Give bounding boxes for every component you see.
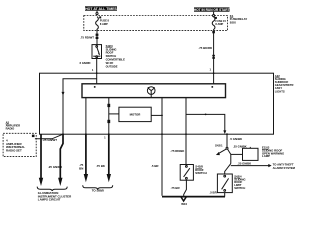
pin square right inside sub-box	[212, 86, 214, 88]
wire drop x186 to switch S42/8	[185, 134, 187, 164]
wire motor box to x162 drop	[151, 114, 162, 116]
svg-text:.75 BR: .75 BR	[171, 186, 181, 190]
svg-text:.75 RD/WT: .75 RD/WT	[80, 36, 94, 40]
svg-text:8 AMP: 8 AMP	[100, 22, 108, 26]
text illumination destination	[38, 191, 72, 201]
lamp box top tick	[249, 147, 251, 148]
wire stub from HOT IN RUN OR START	[213, 12, 215, 15]
svg-text:W/ RF: W/ RF	[106, 61, 114, 65]
A22 sliding roof motor assembly outline	[40, 73, 274, 134]
ground notch W10	[181, 196, 187, 201]
svg-text:ALARM SYSTEM: ALARM SYSTEM	[273, 166, 296, 170]
radio A2 dashed box	[3, 133, 36, 156]
svg-text:SWITCH: SWITCH	[195, 171, 206, 175]
svg-text:LIGHTS: LIGHTS	[275, 89, 285, 93]
wire drop x162 to ground bus	[161, 134, 163, 196]
svg-text:ROOF: ROOF	[106, 51, 114, 55]
svg-text:HOT IN RUN OR START: HOT IN RUN OR START	[194, 8, 231, 12]
svg-text:.5 BR: .5 BR	[209, 191, 216, 195]
wire sub-box drop at x186	[185, 98, 187, 135]
fuse/relay box K1 (dashed)	[84, 16, 228, 31]
switch S42/1 blade with arrow	[219, 149, 227, 153]
svg-text:W10: W10	[181, 202, 187, 206]
switch S42/4	[217, 174, 232, 193]
label A2 radio above dashed box	[6, 120, 21, 130]
wire W2 tap to illumination (corner, down inside assembly)	[63, 79, 97, 134]
switch S42/1 terminal	[226, 147, 228, 149]
power label HOT IN RUN OR START	[194, 7, 231, 12]
warning lamp E15/3 box	[243, 148, 259, 160]
ground bus G	[162, 196, 225, 198]
label S42/3 switch text	[106, 44, 125, 68]
wire S42/4 to ground bus	[224, 193, 226, 197]
switch S42/3 sliding roof switch	[92, 45, 102, 59]
svg-text:.25 GN/RD: .25 GN/RD	[48, 165, 62, 169]
junction dot at motor output	[161, 115, 163, 117]
wire sub-box drop at x109 with connectors	[108, 98, 110, 135]
junction dot on branch	[205, 114, 207, 116]
junction dot switch wire on A22 top edge	[96, 72, 98, 74]
brace under x86/x109 arrows	[83, 185, 113, 189]
svg-text:.75 BK: .75 BK	[96, 164, 106, 168]
motor symbol circle with star	[147, 87, 155, 97]
wire drop x86 to arrow	[85, 134, 87, 175]
wire drop to illumination arrow right	[60, 134, 63, 179]
svg-text:TO S88/5: TO S88/5	[92, 188, 105, 192]
junction dots on A22 bottom edge	[62, 133, 64, 135]
svg-text:HOT AT ALL TIMES: HOT AT ALL TIMES	[85, 7, 117, 11]
wire drop to illumination arrow left	[40, 134, 42, 179]
motor box	[119, 107, 151, 121]
radio terminal square	[32, 135, 35, 138]
svg-text:OUTSIDE: OUTSIDE	[106, 64, 118, 68]
svg-text:.25 GN/WT: .25 GN/WT	[43, 138, 58, 142]
svg-text:8 AMP: 8 AMP	[215, 22, 223, 26]
wire fuse F2 to A22 pin (right)	[213, 31, 215, 84]
wire S42/8 to ground bus	[184, 180, 187, 197]
control unit sub-box inside A22	[82, 84, 226, 98]
wire drop x227 to switch chain	[226, 134, 228, 147]
fuse F1	[96, 16, 110, 30]
label S42/4 text	[234, 174, 245, 190]
inline connector marks on right wire	[212, 31, 215, 33]
wire to warning lamp box	[231, 153, 243, 155]
svg-text:CONVERTIBLE: CONVERTIBLE	[106, 58, 125, 62]
label E15/3 text	[262, 146, 284, 159]
label S42/8 text	[195, 165, 206, 175]
wire fuse F1 to switch S42/3	[96, 31, 98, 45]
switch S42/8	[180, 165, 193, 181]
svg-text:.25 GN/BK: .25 GN/BK	[238, 161, 252, 165]
svg-text:SLIDING: SLIDING	[106, 47, 117, 51]
wire radio to junction	[35, 134, 63, 139]
svg-text:.5 BR: .5 BR	[151, 164, 159, 168]
wire to anti-theft arrow	[231, 165, 269, 167]
radio inner text	[6, 138, 25, 152]
wire switch S42/3 to A22 assembly pin 1	[96, 59, 98, 84]
svg-text:.5 GN/RD: .5 GN/RD	[79, 61, 91, 65]
direction arrow onto bottom edge	[223, 130, 226, 134]
fuse F2	[212, 17, 226, 31]
inline connector on left wire	[96, 34, 99, 36]
svg-text:SWITCH: SWITCH	[106, 54, 117, 58]
svg-text:LAMP: LAMP	[262, 154, 270, 158]
wire drop x109 to arrow	[108, 134, 110, 175]
label K1 fuse/relay box	[230, 14, 248, 24]
svg-text:BN: BN	[79, 166, 83, 170]
wire from switch down	[228, 149, 231, 163]
svg-text:.75 RD/BK: .75 RD/BK	[170, 149, 185, 153]
wire sub-box drop at x86	[85, 98, 87, 135]
text TO ANTI-THEFT ALARM SYSTEM	[273, 163, 296, 170]
terminal circle node left	[96, 13, 98, 15]
direction arrow on W2 drop	[62, 92, 65, 96]
wire branch to motor box	[109, 113, 119, 115]
svg-text:RADIO: RADIO	[6, 127, 15, 131]
pin square left inside sub-box	[94, 86, 96, 88]
svg-text:SWITCH: SWITCH	[234, 186, 245, 190]
wire stub from HOT AT ALL TIMES	[96, 11, 98, 13]
svg-text:MOTOR: MOTOR	[130, 113, 142, 117]
svg-text:BOX: BOX	[230, 20, 236, 24]
wire down to switch S42/4	[225, 164, 231, 174]
svg-text:.25 GN/BK: .25 GN/BK	[233, 144, 247, 148]
svg-text:RADIO SET: RADIO SET	[6, 149, 22, 153]
power label HOT AT ALL TIMES	[85, 6, 117, 11]
svg-text:S42/3: S42/3	[106, 44, 114, 48]
wire sub-box drop at x162	[161, 98, 163, 135]
junction dot fuse wire on A22 top edge	[213, 72, 215, 74]
svg-text:.5 GN/BK: .5 GN/BK	[230, 137, 243, 141]
svg-text:.75 BK/RD: .75 BK/RD	[198, 46, 212, 50]
svg-text:S42/1: S42/1	[215, 144, 223, 148]
wire branch x186 right and down	[186, 114, 225, 130]
label A22 assembly	[275, 74, 294, 94]
svg-text:LAMPS CIRCUIT: LAMPS CIRCUIT	[38, 198, 61, 202]
brace under illumination arrows	[37, 187, 67, 191]
terminal circle node right	[213, 15, 215, 17]
